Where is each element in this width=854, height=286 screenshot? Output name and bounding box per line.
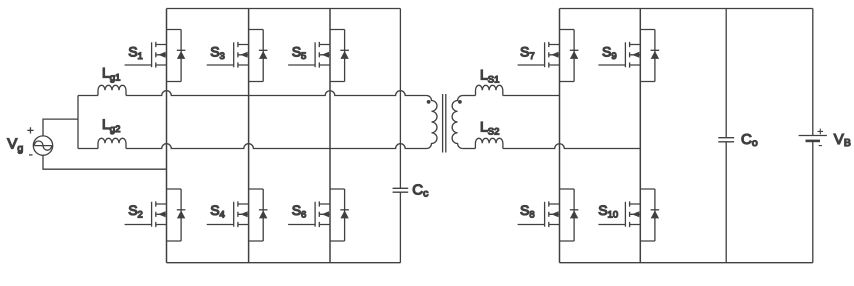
svg-text:Co: Co bbox=[741, 131, 758, 149]
wire vertical tie joining Lg1 and Lg2 left ends bbox=[77, 96, 79, 149]
inductor Lg2 bbox=[98, 138, 126, 148]
svg-text:S8: S8 bbox=[520, 202, 535, 221]
transistor S4 (MOSFET with body diode) bbox=[207, 189, 268, 241]
wire right bridge top bus bbox=[560, 8, 813, 10]
wire from LS2 to S9/S10 leg (hops S7/S8 leg) bbox=[503, 144, 640, 149]
svg-text:S5: S5 bbox=[292, 44, 307, 63]
svg-text:S2: S2 bbox=[128, 202, 143, 221]
wire from Vg negative terminal down and right to leg of S1/S2 bbox=[43, 155, 167, 169]
wire upper mid rail left stub bbox=[78, 95, 98, 97]
transistor S9 (MOSFET with body diode) bbox=[598, 30, 659, 82]
svg-text:S10: S10 bbox=[598, 202, 618, 221]
transistor S8 (MOSFET with body diode) bbox=[518, 189, 579, 241]
wire from LS1 to S7/S8 leg bbox=[503, 95, 560, 97]
battery VB long positive plate bbox=[799, 135, 827, 137]
svg-text:S9: S9 bbox=[602, 44, 617, 63]
wire right bridge bottom bus bbox=[560, 262, 813, 264]
svg-text:S1: S1 bbox=[128, 44, 143, 63]
wire leg 1 of right bridge (S7/S8) bbox=[559, 9, 561, 263]
inductor LS1 bbox=[476, 85, 503, 95]
wire leg 2 of left bridge (S3/S4) bbox=[248, 9, 250, 263]
transformer secondary winding bbox=[452, 96, 462, 149]
capacitor Co rail bbox=[725, 9, 727, 263]
wire upper mid rail from Lg1 to transformer primary (hops legs S1, S5 and Cc rail; junction at S3 leg) bbox=[126, 91, 427, 96]
transformer polarity dot secondary bbox=[458, 100, 462, 104]
capacitor Cc rail bbox=[399, 9, 401, 263]
svg-text:Lg2: Lg2 bbox=[102, 116, 120, 135]
wire secondary top lead bbox=[463, 95, 476, 97]
transistor S1 (MOSFET with body diode) bbox=[125, 30, 186, 82]
svg-text:S7: S7 bbox=[520, 44, 535, 63]
svg-text:VB: VB bbox=[834, 131, 851, 149]
battery VB rail bbox=[812, 9, 814, 263]
inductor LS2 bbox=[475, 138, 503, 148]
transformer primary winding bbox=[427, 96, 438, 149]
transformer polarity dot primary bbox=[427, 100, 431, 104]
transistor S2 (MOSFET with body diode) bbox=[125, 189, 186, 241]
capacitor Co plates bbox=[718, 138, 734, 142]
capacitor Cc plates bbox=[393, 188, 409, 192]
svg-text:LS2: LS2 bbox=[480, 119, 499, 138]
wire leg 3 of left bridge (S5/S6) bbox=[329, 9, 331, 263]
wire leg 1 of left bridge (S1/S2) bbox=[166, 9, 168, 263]
wire lower mid rail left stub bbox=[78, 148, 98, 150]
svg-text:S4: S4 bbox=[210, 202, 225, 221]
transistor S6 (MOSFET with body diode) bbox=[288, 189, 349, 241]
voltage source Vg (AC source circle) bbox=[33, 136, 52, 155]
inductor Lg1 bbox=[98, 85, 126, 95]
svg-text:LS1: LS1 bbox=[480, 67, 499, 86]
wire left bridge top bus bbox=[167, 8, 401, 10]
svg-text:S6: S6 bbox=[292, 202, 307, 221]
wire from Vg positive terminal up and right to inductor input node bbox=[43, 119, 78, 136]
battery VB plus sign bbox=[818, 129, 824, 135]
svg-text:S3: S3 bbox=[210, 44, 225, 63]
wire secondary bottom lead bbox=[463, 148, 476, 150]
battery VB minus sign bbox=[819, 145, 822, 147]
svg-text:Lg1: Lg1 bbox=[102, 65, 120, 84]
svg-text:Vg: Vg bbox=[7, 135, 23, 154]
transistor S7 (MOSFET with body diode) bbox=[518, 30, 579, 82]
wire left bridge bottom bus bbox=[167, 262, 401, 264]
transistor S5 (MOSFET with body diode) bbox=[288, 30, 349, 82]
transistor S3 (MOSFET with body diode) bbox=[207, 30, 268, 82]
battery VB short negative plate bbox=[806, 140, 821, 143]
plus sign of Vg bbox=[27, 127, 33, 133]
wire leg 2 of right bridge (S9/S10) bbox=[639, 9, 641, 263]
svg-text:Cc: Cc bbox=[412, 182, 428, 200]
transistor S10 (MOSFET with body diode) bbox=[598, 189, 659, 241]
transformer core bbox=[443, 94, 446, 153]
wire lower mid rail from Lg2 to transformer primary (hops legs S1, S3 and Cc rail; junction at S5 leg) bbox=[126, 144, 427, 149]
minus sign of Vg bbox=[29, 154, 33, 156]
